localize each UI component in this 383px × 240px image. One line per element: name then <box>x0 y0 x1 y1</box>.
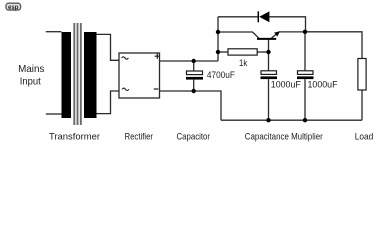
transformer primary winding <box>62 32 72 118</box>
wire cap C2 1000uF bottom <box>304 79 306 120</box>
rectifier AC symbol top <box>122 57 129 59</box>
wire output rail to load <box>305 32 362 59</box>
svg-text:Capacitor: Capacitor <box>177 132 211 142</box>
node junction dots <box>192 59 196 63</box>
rectifier bridge box <box>119 53 160 98</box>
wire positive rail <box>160 60 219 62</box>
svg-text:Mains: Mains <box>18 64 44 75</box>
svg-text:1k: 1k <box>239 58 247 68</box>
capacitor 4700uF plates <box>187 71 203 75</box>
wire mains top lead <box>46 31 62 33</box>
wire cap C1 1000uF bottom <box>268 79 270 120</box>
wire negative rail upper <box>160 91 222 120</box>
resistor 1k <box>228 49 257 55</box>
wire collector <box>218 32 259 38</box>
wire cap 4700uF top <box>193 61 195 71</box>
svg-text:esp: esp <box>8 4 19 11</box>
wire cap 4700uF bottom <box>193 80 195 91</box>
svg-text:Capacitance Multiplier: Capacitance Multiplier <box>245 132 323 142</box>
wire diode top left <box>218 16 258 18</box>
wire ground rail <box>221 119 362 121</box>
svg-text:Input: Input <box>20 77 41 88</box>
wire secondary top to rectifier <box>97 34 120 60</box>
transformer core lines <box>74 23 81 125</box>
ESP logo <box>6 3 21 11</box>
wire load bottom <box>361 90 363 120</box>
capacitor C2 1000uF plates <box>298 71 314 75</box>
diode D1 <box>258 11 269 22</box>
wire cap C2 1000uF top <box>304 32 306 71</box>
wire diode top right <box>269 17 306 32</box>
transformer secondary winding <box>84 32 97 118</box>
rectifier plus terminal <box>155 54 160 59</box>
svg-text:1000uF: 1000uF <box>271 78 301 89</box>
load resistor <box>358 59 366 91</box>
svg-text:1000uF: 1000uF <box>308 78 338 89</box>
wire mains bottom lead <box>46 113 62 115</box>
rectifier AC symbol bottom <box>122 88 129 90</box>
wire emitter to node <box>279 31 305 33</box>
wire cap C1 1000uF top <box>268 52 270 71</box>
wire riser to diode <box>217 17 219 61</box>
rectifier minus terminal <box>154 88 159 90</box>
wire secondary bottom to rectifier <box>97 91 120 114</box>
wire base lead <box>268 40 270 52</box>
svg-text:Transformer: Transformer <box>49 132 100 142</box>
capacitor C1 1000uF plates <box>261 71 277 75</box>
svg-text:Rectifier: Rectifier <box>125 132 154 142</box>
transistor Q1 <box>257 31 280 39</box>
svg-text:Load: Load <box>355 132 374 142</box>
wire 1k right to base node <box>257 51 268 53</box>
svg-text:4700uF: 4700uF <box>207 70 235 80</box>
wire 1k left <box>218 51 228 53</box>
